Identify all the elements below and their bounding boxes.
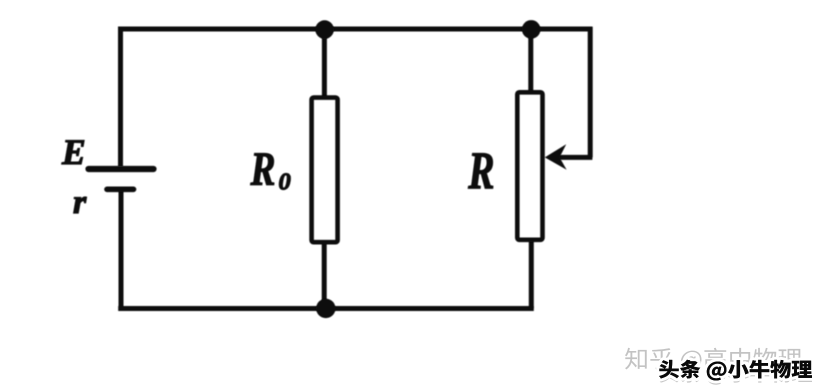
battery cell: short plate (r) [107,187,134,193]
wire battery negative lead down [119,190,124,309]
wire R0 top stub [322,29,327,97]
svg-text:0: 0 [279,168,291,195]
battery cell: long plate (E) [89,166,154,172]
wiper arrowhead [545,144,567,170]
svg-text:R: R [467,143,494,201]
wire R top stub [528,29,533,92]
wire left vertical (battery positive lead) [118,27,123,167]
watermark toutiao @xiaoniuwuli (black, white outline) [659,360,812,381]
wire wiper horizontal into arrow [556,155,592,160]
wire R bottom stub [529,241,534,309]
wire wiper feed: top bus right end down [588,27,593,158]
node A (top junction above R0) [315,20,334,39]
watermark zhihu @gaozhongwuli (gray) [625,348,801,372]
resistor R0 body [312,98,338,243]
svg-text:r: r [73,184,87,221]
rheostat R body [517,92,542,240]
wire top bus [118,27,592,32]
node C (bottom junction below R0) [316,299,335,318]
svg-text:R: R [250,144,276,196]
wire bottom bus [118,306,534,311]
node B (top junction above R) [522,20,541,39]
wire R0 bottom stub [322,243,327,309]
watermark toutiao @xiaoniuwuli shadow [659,364,812,385]
svg-text:E: E [61,132,86,172]
